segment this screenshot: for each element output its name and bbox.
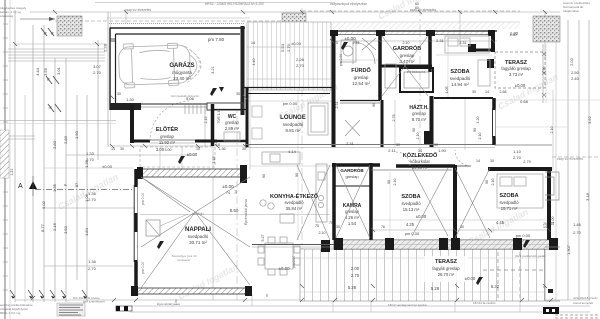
svg-text:30: 30 (434, 143, 438, 147)
svg-text:2.79: 2.79 (523, 160, 530, 164)
svg-text:2.89 m²: 2.89 m² (225, 126, 240, 131)
svg-text:1.35: 1.35 (52, 183, 57, 192)
svg-text:SZOBA: SZOBA (401, 194, 420, 200)
svg-text:1.46: 1.46 (573, 222, 582, 227)
svg-text:30: 30 (120, 147, 124, 151)
svg-text:15.13 m²: 15.13 m² (403, 207, 420, 212)
svg-text:14: 14 (234, 190, 238, 194)
svg-text:fagyálló greslap: fagyálló greslap (501, 66, 531, 71)
svg-text:svedpadló: svedpadló (450, 76, 471, 81)
svg-text:90: 90 (262, 174, 266, 178)
svg-text:2.10: 2.10 (319, 231, 326, 235)
svg-text:90: 90 (473, 128, 477, 132)
svg-text:2.96: 2.96 (542, 67, 546, 74)
svg-text:2.70: 2.70 (93, 70, 102, 75)
svg-text:3.00: 3.00 (165, 148, 172, 152)
svg-text:greslap: greslap (160, 134, 174, 139)
svg-text:4.40: 4.40 (252, 59, 256, 66)
svg-text:greslap: greslap (225, 120, 239, 125)
svg-text:NAPPALI: NAPPALI (185, 227, 211, 233)
svg-text:90: 90 (387, 180, 391, 184)
svg-text:76: 76 (381, 225, 385, 229)
svg-text:csaposzlopok elhelyezése: csaposzlopok elhelyezése (330, 2, 367, 6)
svg-text:1.06: 1.06 (84, 193, 89, 202)
svg-text:14: 14 (111, 147, 115, 151)
svg-text:±0.00: ±0.00 (187, 152, 198, 157)
svg-text:90: 90 (372, 103, 376, 107)
svg-text:5.28: 5.28 (431, 286, 440, 291)
svg-text:fagyált greslap: fagyált greslap (432, 266, 460, 271)
svg-text:9.02: 9.02 (41, 200, 46, 209)
svg-text:FÜRDŐ: FÜRDŐ (351, 67, 371, 74)
svg-text:26.70 m²: 26.70 m² (438, 272, 455, 277)
svg-text:1.35: 1.35 (84, 159, 89, 168)
svg-text:2.70: 2.70 (573, 230, 582, 235)
svg-text:1.33: 1.33 (86, 151, 95, 156)
svg-text:svedpadló: svedpadló (401, 201, 421, 206)
svg-text:2.10: 2.10 (403, 41, 410, 45)
svg-text:8.77: 8.77 (40, 223, 45, 232)
svg-text:A: A (18, 183, 23, 190)
svg-text:1.307: 1.307 (566, 244, 571, 255)
svg-text:2.00: 2.00 (351, 266, 360, 271)
svg-text:3.59: 3.59 (43, 67, 48, 76)
svg-text:2.31: 2.31 (460, 41, 467, 45)
svg-text:2.31: 2.31 (346, 141, 355, 146)
svg-text:1.36: 1.36 (219, 147, 226, 151)
svg-text:1.48: 1.48 (212, 157, 216, 164)
svg-text:2.10: 2.10 (393, 179, 397, 186)
svg-text:14: 14 (485, 90, 489, 94)
svg-text:TERASZ: TERASZ (435, 259, 458, 265)
svg-text:70/5 1.41: 70/5 1.41 (217, 109, 221, 124)
svg-text:3.00: 3.00 (156, 147, 165, 152)
svg-text:greslap: greslap (400, 53, 415, 58)
svg-text:18/12 vendégmérőnyi ajanka: 18/12 vendégmérőnyi ajanka (388, 303, 427, 307)
svg-text:3.07: 3.07 (93, 64, 102, 69)
svg-text:2.10: 2.10 (550, 127, 554, 134)
svg-text:1.36: 1.36 (88, 259, 97, 264)
svg-text:2.83: 2.83 (63, 135, 68, 144)
svg-text:3.73 m²: 3.73 m² (509, 72, 524, 77)
svg-text:30: 30 (336, 225, 340, 229)
svg-text:2.16: 2.16 (52, 222, 57, 231)
svg-text:GARÁZS: GARÁZS (169, 62, 194, 69)
svg-text:0.68: 0.68 (520, 99, 529, 104)
svg-text:30: 30 (396, 143, 400, 147)
svg-text:pm 0.00: pm 0.00 (141, 193, 145, 205)
svg-text:1.30: 1.30 (126, 97, 135, 102)
svg-text:pm 0.00: pm 0.00 (339, 54, 343, 66)
svg-text:1.90: 1.90 (74, 130, 79, 139)
svg-text:80: 80 (265, 293, 269, 297)
svg-text:Jola 19x/18 (zseb): Jola 19x/18 (zseb) (573, 296, 598, 300)
svg-text:greslap: greslap (354, 75, 369, 80)
svg-text:4.26 m²: 4.26 m² (345, 215, 360, 220)
svg-text:±0.00: ±0.00 (515, 83, 526, 88)
svg-text:1.90: 1.90 (438, 148, 447, 153)
svg-text:87: 87 (74, 182, 79, 187)
svg-text:3.18: 3.18 (585, 192, 590, 201)
svg-text:2.70: 2.70 (88, 197, 97, 202)
svg-text:2.31: 2.31 (353, 41, 360, 45)
svg-text:30: 30 (242, 147, 246, 151)
svg-text:90: 90 (295, 173, 299, 177)
svg-text:1.00: 1.00 (551, 217, 555, 224)
svg-text:pm 0.00: pm 0.00 (141, 262, 145, 274)
svg-text:pm 7.80: pm 7.80 (208, 37, 225, 42)
svg-text:KONYHA-ÉTKEZŐ: KONYHA-ÉTKEZŐ (270, 192, 319, 200)
svg-text:30: 30 (117, 92, 121, 96)
svg-text:1.54: 1.54 (348, 221, 357, 226)
svg-text:greslap: greslap (345, 174, 359, 179)
svg-text:3.21: 3.21 (211, 66, 215, 73)
svg-text:30: 30 (236, 92, 240, 96)
svg-text:csap víz elvezetés: csap víz elvezetés (557, 157, 583, 161)
svg-text:svedpadló: svedpadló (283, 122, 304, 127)
svg-text:8.50: 8.50 (230, 208, 239, 213)
svg-text:2.02: 2.02 (569, 57, 574, 66)
svg-text:8.70 m²: 8.70 m² (412, 117, 427, 122)
svg-text:ELŐTÉR: ELŐTÉR (156, 125, 178, 133)
svg-text:1.36: 1.36 (88, 191, 97, 196)
svg-text:75: 75 (329, 221, 333, 225)
svg-text:5.54: 5.54 (280, 43, 285, 52)
svg-text:2.78: 2.78 (392, 115, 396, 122)
svg-text:2.26: 2.26 (296, 57, 305, 62)
svg-text:1.21: 1.21 (10, 169, 14, 176)
svg-text:30.71 m²: 30.71 m² (189, 240, 207, 245)
svg-text:800E, 2 9,0 mg: 800E, 2 9,0 mg (0, 311, 21, 315)
svg-text:kandalló: kandalló (192, 212, 204, 216)
svg-text:±0.00: ±0.00 (102, 164, 113, 169)
svg-text:SZOBA: SZOBA (450, 69, 469, 75)
svg-text:10: 10 (196, 147, 200, 151)
svg-text:2.15: 2.15 (204, 117, 208, 124)
svg-text:1.84: 1.84 (84, 227, 89, 236)
svg-text:5.27: 5.27 (261, 235, 265, 242)
svg-text:75: 75 (334, 41, 338, 45)
svg-text:5.32: 5.32 (491, 284, 500, 289)
svg-text:LOUNGE: LOUNGE (280, 115, 306, 121)
svg-text:2.70: 2.70 (513, 155, 522, 160)
svg-text:szélesség: szélesség (0, 14, 14, 18)
svg-text:30: 30 (418, 148, 423, 153)
svg-text:1.80: 1.80 (174, 299, 178, 305)
svg-text:75: 75 (315, 224, 319, 228)
svg-text:30: 30 (490, 159, 494, 163)
svg-text:35.84 m²: 35.84 m² (286, 206, 303, 211)
svg-text:műgyanta: műgyanta (172, 70, 192, 75)
svg-text:15.71 m²: 15.71 m² (501, 206, 518, 211)
svg-text:12.54 m²: 12.54 m² (352, 81, 370, 86)
svg-text:1.30: 1.30 (510, 33, 517, 37)
svg-text:90: 90 (485, 180, 489, 184)
svg-text:HÁZT.H.: HÁZT.H. (409, 104, 429, 111)
svg-text:átm személyesít: átm személyesít (83, 300, 105, 304)
svg-text:Épcéndúlál jansa: Épcéndúlál jansa (243, 199, 248, 225)
svg-text:2.40: 2.40 (571, 76, 580, 81)
svg-text:30: 30 (460, 225, 464, 229)
svg-text:14.99 m²: 14.99 m² (412, 165, 429, 170)
svg-text:11.92 m²: 11.92 m² (159, 140, 176, 145)
svg-text:4.20: 4.20 (476, 117, 480, 124)
svg-text:±0.00: ±0.00 (222, 184, 234, 189)
svg-text:tulajdonálra: tulajdonálra (563, 9, 579, 13)
svg-text:5.06: 5.06 (186, 96, 195, 101)
svg-text:3.01: 3.01 (56, 66, 61, 75)
svg-text:2.70: 2.70 (296, 63, 305, 68)
svg-text:kőburkolat: kőburkolat (410, 159, 430, 164)
svg-text:pm 0.00: pm 0.00 (292, 256, 296, 268)
svg-text:svedpadló: svedpadló (499, 200, 519, 205)
svg-text:60: 60 (415, 6, 419, 10)
svg-text:2.31: 2.31 (335, 102, 339, 109)
svg-text:23.40 m²: 23.40 m² (173, 76, 191, 81)
svg-text:14: 14 (543, 225, 547, 229)
svg-text:5.28: 5.28 (348, 285, 357, 290)
svg-text:(9x/1 partnerünk gada): (9x/1 partnerünk gada) (515, 254, 545, 258)
svg-text:csap víz elvezetés: csap víz elvezetés (410, 8, 436, 12)
svg-text:GARDRÓB: GARDRÓB (340, 166, 364, 173)
svg-text:1.10: 1.10 (513, 149, 522, 154)
svg-text:2.70: 2.70 (351, 273, 360, 278)
svg-text:csap víz elvezetés: csap víz elvezetés (125, 8, 151, 12)
svg-text:4.44: 4.44 (35, 67, 40, 76)
svg-text:9.81 m²: 9.81 m² (285, 128, 301, 133)
svg-text:pm 0.00: pm 0.00 (283, 101, 298, 106)
svg-text:SZOBA: SZOBA (499, 193, 518, 199)
svg-text:±0.00: ±0.00 (465, 276, 476, 281)
svg-text:3.92: 3.92 (587, 115, 592, 124)
svg-text:HRSZ.: 1234/5 HELYSZÍNRAJZ M=1: HRSZ.: 1234/5 HELYSZÍNRAJZ M=1:200 (205, 2, 264, 6)
svg-text:2.80: 2.80 (52, 140, 57, 149)
svg-text:30: 30 (472, 90, 476, 94)
svg-text:4.45: 4.45 (496, 220, 505, 225)
svg-text:2.10: 2.10 (478, 133, 482, 140)
svg-text:kérésére): kérésére) (178, 258, 191, 262)
svg-text:74: 74 (226, 191, 230, 195)
svg-text:14.94 m²: 14.94 m² (451, 82, 469, 87)
svg-text:2.10: 2.10 (491, 179, 495, 186)
svg-text:2.10: 2.10 (416, 133, 420, 140)
svg-text:14: 14 (251, 41, 255, 45)
svg-text:±0.00: ±0.00 (291, 41, 302, 46)
svg-text:2.28: 2.28 (103, 43, 108, 52)
svg-text:2.11: 2.11 (388, 148, 396, 153)
svg-text:2.31: 2.31 (436, 38, 445, 43)
svg-text:2.79: 2.79 (286, 43, 291, 52)
svg-text:pm 0.00: pm 0.00 (516, 233, 531, 238)
svg-text:svedpadló: svedpadló (188, 234, 209, 239)
svg-text:90: 90 (412, 128, 416, 132)
svg-text:2.70: 2.70 (88, 266, 97, 271)
svg-text:14: 14 (476, 159, 480, 163)
svg-text:greslap: greslap (412, 111, 426, 116)
svg-text:csend komplett: csend komplett (573, 301, 593, 305)
svg-text:3.50: 3.50 (63, 225, 68, 234)
svg-text:2.68: 2.68 (500, 90, 507, 94)
svg-text:4.14: 4.14 (288, 149, 297, 154)
svg-text:P: P (63, 183, 68, 186)
svg-text:4.05: 4.05 (445, 87, 449, 94)
svg-text:svedpadló: svedpadló (284, 200, 304, 205)
svg-text:KÖZLEKEDŐ: KÖZLEKEDŐ (403, 152, 438, 159)
svg-text:2.50: 2.50 (571, 70, 580, 75)
svg-text:18x/12 fa csatlós: 18x/12 fa csatlós (473, 301, 496, 305)
svg-text:4.25: 4.25 (406, 222, 415, 227)
